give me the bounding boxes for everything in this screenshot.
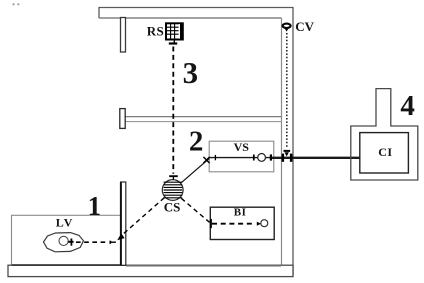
RS bar (169, 42, 177, 44)
wall middle horizontal (126, 116, 282, 118)
radiator RS (166, 23, 183, 39)
wire dashed LV to wall (76, 241, 107, 243)
wire dashed RS to CS (net 3) (172, 47, 174, 174)
tick VS-2 (253, 155, 255, 161)
speck dots top-left (12, 3, 14, 5)
pipe VS to CI (bold) (271, 157, 361, 159)
box VS (209, 141, 274, 172)
tick at BI input (210, 219, 212, 228)
CS top bar (169, 175, 178, 177)
svg-text:LV: LV (56, 216, 74, 230)
lamp LV inner circle (59, 236, 68, 245)
wall stub top-left (121, 18, 126, 53)
wire dashed CS to wall (toward LV) (124, 198, 165, 234)
svg-text:CS: CS (164, 200, 181, 215)
wall right (inner line) (281, 18, 283, 265)
sensor CS (162, 180, 183, 201)
arrowhead BI (257, 222, 261, 226)
svg-text:CV: CV (295, 19, 314, 34)
lamp LV blob (44, 233, 84, 252)
floor line inner room (126, 265, 281, 267)
circle BI (261, 220, 268, 227)
LV tick bar (68, 241, 73, 243)
svg-text:3: 3 (183, 55, 199, 90)
LV wire arrow end (109, 241, 111, 244)
valve CV (283, 24, 291, 32)
wire dashed CS to BI (181, 198, 209, 222)
arrowhead at wall (117, 233, 124, 240)
junction block B on pipe at wall (290, 154, 293, 162)
svg-text:1: 1 (88, 191, 102, 221)
svg-text:BI: BI (234, 207, 247, 219)
base slab (8, 265, 293, 276)
room LV bottom edge (12, 264, 123, 266)
wall middle left end cap (120, 109, 125, 129)
CV wire end bar (284, 150, 291, 152)
tick VS-1 (214, 155, 216, 160)
pipe VS internal (209, 157, 270, 159)
RS stem (173, 40, 175, 43)
box CI inner (360, 133, 409, 173)
valve circle in VS (258, 154, 266, 162)
boiler CI outer contour with chimney (zone 4) (351, 89, 418, 180)
svg-text:2: 2 (189, 125, 204, 157)
room LV box (12, 215, 123, 265)
CS top stem (172, 176, 174, 179)
wall lower-left vertical (121, 182, 126, 265)
wall top (outer contour) (99, 8, 293, 277)
wire CS to VS (solid diagonal) (181, 158, 209, 183)
tick VS-3 bold (270, 154, 272, 160)
CV wire arrow (285, 152, 289, 156)
wire dashed BI internal (212, 223, 256, 225)
X mark at VS input (203, 157, 209, 163)
svg-text:VS: VS (234, 140, 250, 154)
svg-text:4: 4 (400, 90, 415, 122)
svg-text:CI: CI (378, 145, 392, 159)
box BI (210, 207, 274, 239)
svg-text:RS: RS (147, 23, 164, 38)
wall top (inner line) (99, 17, 282, 19)
junction block A on pipe at wall (282, 154, 285, 162)
wire dotted CV down (286, 33, 288, 149)
